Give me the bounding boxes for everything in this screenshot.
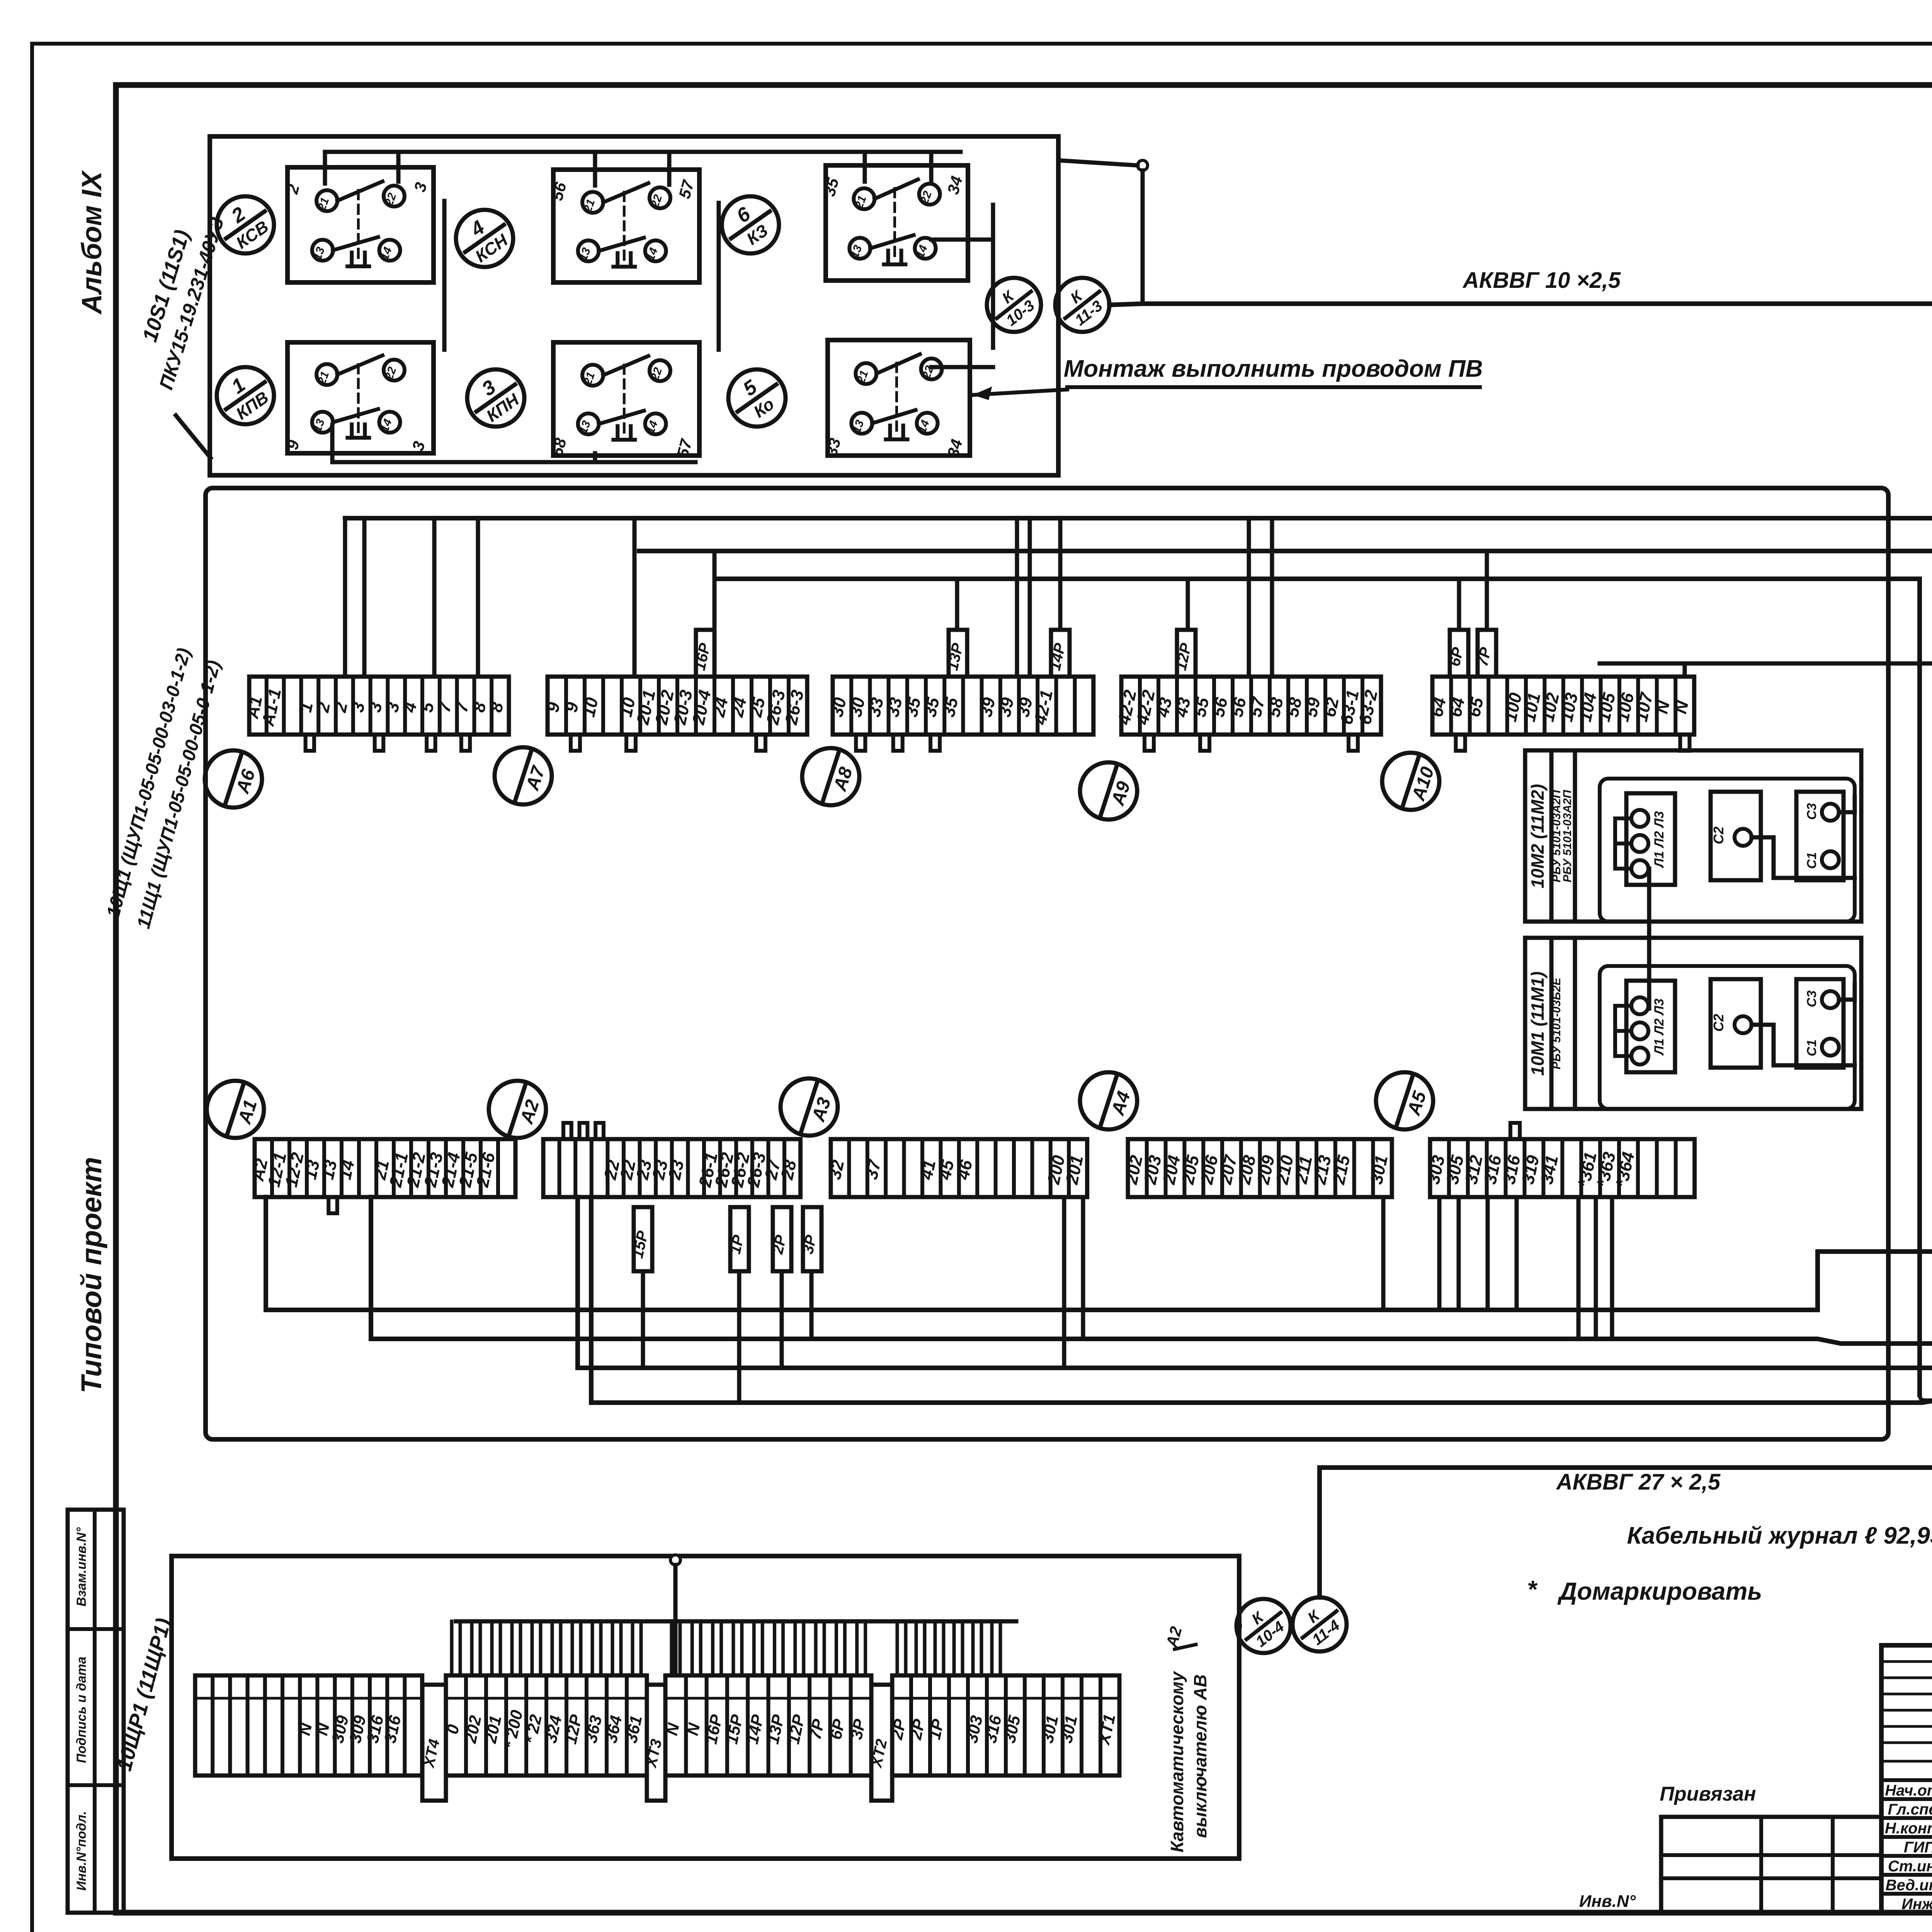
svg-text:Кабельный журнал ℓ 92,93: Кабельный журнал ℓ 92,93: [1627, 1522, 1932, 1549]
svg-text:Альбом IX: Альбом IX: [77, 170, 107, 315]
svg-text:39: 39: [976, 696, 999, 719]
svg-text:Типовой проект: Типовой проект: [75, 1157, 107, 1393]
svg-text:33: 33: [883, 696, 906, 719]
svg-text:10М2 (11М2): 10М2 (11М2): [1527, 784, 1548, 888]
svg-text:32: 32: [825, 1158, 848, 1181]
svg-text:Ст.инж.: Ст.инж.: [1888, 1858, 1932, 1875]
svg-text:Привязан: Привязан: [1660, 1783, 1756, 1805]
svg-text:Вед.инж.: Вед.инж.: [1886, 1877, 1932, 1894]
svg-text:ГИП: ГИП: [1904, 1839, 1932, 1856]
svg-text:С1: С1: [1804, 852, 1819, 869]
svg-text:30: 30: [827, 696, 850, 719]
svg-text:Монтаж выполнить проводом ПВ: Монтаж выполнить проводом ПВ: [1064, 355, 1483, 382]
svg-text:Л1 Л2 Л3: Л1 Л2 Л3: [1652, 811, 1667, 869]
svg-text:С3: С3: [1804, 990, 1819, 1007]
svg-text:30: 30: [845, 696, 869, 719]
svg-text:23: 23: [664, 1158, 688, 1182]
svg-text:АКВВГ 27 × 2,5: АКВВГ 27 × 2,5: [1556, 1469, 1721, 1495]
svg-text:64: 64: [1445, 696, 1468, 719]
svg-text:С3: С3: [1804, 803, 1819, 820]
svg-text:РБУ 5101-03Б2Е: РБУ 5101-03Б2Е: [1550, 977, 1563, 1069]
svg-text:28: 28: [777, 1158, 800, 1182]
svg-text:выключателю АВ: выключателю АВ: [1190, 1674, 1210, 1838]
svg-text:С2: С2: [1711, 827, 1726, 844]
svg-text:Подпись и дата: Подпись и дата: [74, 1656, 89, 1763]
svg-text:10М1 (11М1): 10М1 (11М1): [1527, 971, 1548, 1076]
svg-text:Гл.спец.: Гл.спец.: [1888, 1801, 1932, 1818]
svg-text:Л1 Л2 Л3: Л1 Л2 Л3: [1652, 998, 1667, 1056]
svg-text:14: 14: [335, 1158, 358, 1181]
svg-text:АКВВГ 10 ×2,5: АКВВГ 10 ×2,5: [1462, 268, 1621, 293]
svg-text:Нач.отд.: Нач.отд.: [1885, 1782, 1932, 1799]
svg-text:Кавтоматическому: Кавтоматическому: [1167, 1671, 1187, 1852]
svg-text:39: 39: [994, 696, 1017, 719]
svg-text:С2: С2: [1711, 1014, 1726, 1032]
svg-text:Н.контр.: Н.контр.: [1885, 1820, 1932, 1837]
svg-text:Инж.: Инж.: [1901, 1896, 1932, 1913]
svg-text:10: 10: [578, 696, 602, 719]
svg-text:Инв.N°подл.: Инв.N°подл.: [74, 1811, 89, 1891]
svg-text:64: 64: [1427, 696, 1450, 719]
svg-text:Инв.N°: Инв.N°: [1579, 1892, 1636, 1911]
svg-text:Взам.инв.N°: Взам.инв.N°: [74, 1527, 89, 1606]
svg-text:С1: С1: [1804, 1039, 1819, 1056]
svg-text:Домаркировать: Домаркировать: [1557, 1577, 1762, 1605]
svg-text:*: *: [1527, 1575, 1538, 1603]
svg-text:РБУ 5101-03А2П: РБУ 5101-03А2П: [1561, 789, 1574, 883]
